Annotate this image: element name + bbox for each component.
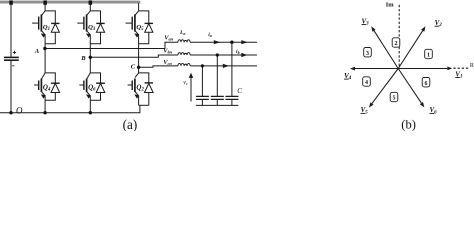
svg-text:vc: vc <box>183 80 188 86</box>
svg-text:O: O <box>16 105 23 115</box>
svg-text:6: 6 <box>425 81 428 87</box>
svg-text:ib: ib <box>236 49 240 55</box>
svg-text:Vcn: Vcn <box>163 59 172 66</box>
svg-text:C: C <box>237 87 242 95</box>
svg-text:A: A <box>34 48 40 55</box>
svg-text:Im: Im <box>386 2 394 9</box>
svg-text:4: 4 <box>365 80 368 86</box>
svg-text:(b): (b) <box>401 117 416 131</box>
svg-text:Van: Van <box>164 35 173 42</box>
svg-text:5: 5 <box>393 96 396 102</box>
svg-text:R: R <box>470 63 474 69</box>
svg-text:Vbn: Vbn <box>163 47 172 54</box>
svg-text:(a): (a) <box>123 117 138 131</box>
svg-text:B: B <box>80 55 86 62</box>
svg-text:La: La <box>179 30 185 36</box>
svg-text:C: C <box>131 63 136 70</box>
svg-text:1: 1 <box>427 53 430 59</box>
svg-text:ia: ia <box>208 32 212 38</box>
svg-text:3: 3 <box>366 51 369 57</box>
svg-text:2: 2 <box>395 41 398 47</box>
